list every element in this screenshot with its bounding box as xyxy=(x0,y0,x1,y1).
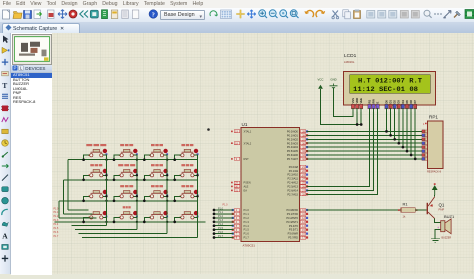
button S6 keypad row2 col2 xyxy=(119,169,138,177)
svg-text:P0.0/AD0: P0.0/AD0 xyxy=(287,130,299,134)
svg-text:P1.5: P1.5 xyxy=(218,227,224,230)
wire keypad row 1 net xyxy=(68,160,198,210)
svg-text:P3.7/RD: P3.7/RD xyxy=(288,236,298,240)
junction dots keypad row 3 column crossings xyxy=(105,200,168,202)
wire LCD D6 vertical xyxy=(410,108,412,155)
button S3 label text xyxy=(151,144,163,146)
wire keypad row 2 button stubs xyxy=(84,175,181,180)
wire LCD D7 vertical xyxy=(414,108,416,159)
svg-text:ALE: ALE xyxy=(244,185,249,189)
svg-text:P2.6/A14: P2.6/A14 xyxy=(287,189,298,193)
svg-text:VEE: VEE xyxy=(359,98,363,104)
wire U1 P0.1 to RP1 pin 3 xyxy=(307,134,422,136)
svg-text:VCC: VCC xyxy=(318,78,324,82)
button S3 keypad row1 col3 xyxy=(149,149,168,157)
svg-text:P2.7/A15: P2.7/A15 xyxy=(287,192,298,196)
svg-text:VSS: VSS xyxy=(351,98,355,104)
LCD LCD1 LM016L body xyxy=(344,72,436,106)
svg-text:U1: U1 xyxy=(242,122,248,127)
svg-text:P1.2: P1.2 xyxy=(218,215,224,218)
LCD1 display screen xyxy=(350,75,431,94)
svg-text:P1.1: P1.1 xyxy=(54,212,59,214)
svg-text:P1.2: P1.2 xyxy=(54,216,59,218)
U1 right pin number boxes xyxy=(300,130,308,240)
wire LCD D4 vertical xyxy=(402,108,404,147)
button S10 label text xyxy=(120,185,133,187)
wire U1 P0.0 to RP1 pin 2 xyxy=(307,130,422,132)
wire keypad row 4 button stubs xyxy=(84,217,181,222)
svg-text:RST: RST xyxy=(244,157,250,161)
junction dots data bus staircase xyxy=(385,130,416,160)
svg-text:D6: D6 xyxy=(409,100,413,104)
net labels P1.0-P1.7 xyxy=(218,204,228,238)
button S1 keypad row1 col1 xyxy=(88,149,107,157)
button S15 keypad row4 col3 xyxy=(149,211,168,219)
svg-text:P1.7: P1.7 xyxy=(244,236,250,240)
svg-text:P2.4/A12: P2.4/A12 xyxy=(287,181,298,185)
wire keypad row 3 button stubs xyxy=(84,196,181,201)
svg-text:P: P xyxy=(14,66,17,71)
svg-text:P1.3: P1.3 xyxy=(244,220,250,224)
svg-text:PNP: PNP xyxy=(439,207,445,211)
svg-text:R1: R1 xyxy=(403,202,409,207)
svg-text:P1.0: P1.0 xyxy=(244,208,250,212)
svg-text:P1.1: P1.1 xyxy=(244,212,250,216)
svg-text:RP1: RP1 xyxy=(429,115,438,120)
junction dots keypad column 3 xyxy=(166,174,168,197)
svg-text:P2.5/A13: P2.5/A13 xyxy=(287,185,298,189)
svg-text:LCD1: LCD1 xyxy=(344,53,357,59)
svg-text:P1.0: P1.0 xyxy=(218,207,224,210)
junction dots keypad row 2 column crossings xyxy=(105,179,168,181)
junction dots P1 bus xyxy=(213,209,216,239)
svg-text:P3.4/T0: P3.4/T0 xyxy=(289,224,299,228)
junction dots keypad row 3 stubs xyxy=(82,199,176,202)
junction dots keypad column 4 xyxy=(196,174,198,197)
wire LCD D0 vertical xyxy=(386,108,388,131)
button S16 keypad row4 col4 xyxy=(180,211,199,219)
button S4 label text xyxy=(181,144,193,146)
junction dots keypad row 4 column crossings xyxy=(105,221,168,223)
LCD1 pin name labels vertical xyxy=(351,98,417,104)
svg-text:PSEN: PSEN xyxy=(244,181,251,185)
wire keypad column 4 net xyxy=(82,155,198,237)
svg-text:D5: D5 xyxy=(405,100,409,104)
button S5 keypad row2 col1 xyxy=(88,169,107,177)
svg-text:D3: D3 xyxy=(397,100,401,104)
svg-text:P0.6/AD6: P0.6/AD6 xyxy=(287,153,299,157)
button S4 keypad row1 col4 xyxy=(180,149,199,157)
svg-text:P3.3/INT1: P3.3/INT1 xyxy=(286,220,298,224)
svg-text:?: ? xyxy=(152,11,155,18)
junction dots keypad column 1 xyxy=(105,174,107,197)
button S9 keypad row3 col1 xyxy=(88,190,107,198)
U1 right pin names xyxy=(286,130,298,240)
svg-text:P1.3: P1.3 xyxy=(218,219,224,222)
wire keypad column 3 net xyxy=(79,155,168,233)
button S12 label text xyxy=(181,185,193,187)
button S12 keypad row3 col4 xyxy=(180,190,199,198)
wire VCC to LCD VDD and VEE xyxy=(321,89,363,125)
svg-text:BUZZER: BUZZER xyxy=(442,236,452,239)
U1 left pin names xyxy=(244,130,252,240)
svg-text:BUZ1: BUZ1 xyxy=(444,214,455,219)
junction dots keypad row 1 column crossings xyxy=(105,159,168,161)
svg-text:P2.0/A8: P2.0/A8 xyxy=(289,165,299,169)
button S11 label text xyxy=(151,185,163,187)
button S7 label text xyxy=(151,164,163,166)
wire LCD D5 vertical xyxy=(406,108,408,151)
svg-text:P1.6: P1.6 xyxy=(54,232,59,234)
svg-text:VDD: VDD xyxy=(355,98,359,104)
svg-text:P0.3/AD3: P0.3/AD3 xyxy=(287,141,299,145)
button S10 keypad row3 col2 xyxy=(119,190,138,198)
svg-text:RS: RS xyxy=(367,100,371,104)
wire LCD D2 vertical xyxy=(394,108,396,139)
button S13 keypad row4 col1 xyxy=(88,211,107,219)
svg-text:P1.5: P1.5 xyxy=(244,228,250,232)
buzzer BUZ1 body xyxy=(441,219,451,234)
svg-text:RESPACK-8: RESPACK-8 xyxy=(427,171,442,174)
R1 pin end marks xyxy=(398,209,417,211)
wire GND to LCD VSS xyxy=(334,88,354,117)
wire U1 P0.6 to RP1 pin 8 xyxy=(307,154,422,156)
button S7 keypad row2 col3 xyxy=(149,169,168,177)
svg-text:P0.7/AD7: P0.7/AD7 xyxy=(287,157,299,161)
U1 unconnected pin-end marks xyxy=(231,131,233,192)
LCD1 pin connector boxes xyxy=(351,104,416,111)
svg-text:XTAL2: XTAL2 xyxy=(244,141,252,145)
junction dots keypad column 2 xyxy=(136,174,138,197)
svg-text:D4: D4 xyxy=(401,100,405,104)
svg-text:A: A xyxy=(2,231,8,240)
IC U1 AT89C51 microcontroller xyxy=(241,128,300,242)
transistor Q1 PNP symbol xyxy=(427,197,435,219)
wire U1 P3.0 to R1 xyxy=(307,209,401,211)
power VCC up-arrow at Q1 emitter xyxy=(432,183,438,195)
svg-text:P1.6: P1.6 xyxy=(244,232,250,236)
button S8 keypad row2 col4 xyxy=(180,169,199,177)
svg-text:11:12 SEC-01 08: 11:12 SEC-01 08 xyxy=(353,86,418,93)
svg-text:P2.1/A9: P2.1/A9 xyxy=(289,169,299,173)
wire keypad column 1 net xyxy=(72,155,107,226)
svg-text:D1: D1 xyxy=(389,100,393,104)
button S8 label text xyxy=(181,164,193,166)
wire LCD D3 vertical xyxy=(398,108,400,143)
wire U1 P0.7 to RP1 pin 9 xyxy=(307,158,422,160)
svg-text:AT89C51: AT89C51 xyxy=(243,243,256,247)
button S11 keypad row3 col3 xyxy=(149,190,168,198)
svg-text:P0.4/AD4: P0.4/AD4 xyxy=(287,145,299,149)
wire U1 P0.2 to RP1 pin 4 xyxy=(307,138,422,140)
svg-text:P1.1: P1.1 xyxy=(218,211,224,214)
svg-text:P2.3/A11: P2.3/A11 xyxy=(288,177,299,181)
wire LCD RW to U1 P2.6 xyxy=(307,108,374,190)
wire U1 P0.3 to RP1 pin 5 xyxy=(307,142,422,144)
wire keypad row 1 button stubs xyxy=(84,155,181,160)
resistor R1 body xyxy=(401,208,415,212)
svg-text:P0.1/AD1: P0.1/AD1 xyxy=(287,133,299,137)
svg-text:P1.3: P1.3 xyxy=(54,220,59,222)
svg-text:P1.0: P1.0 xyxy=(54,208,59,210)
wire keypad row 4 net xyxy=(55,221,206,223)
button S5 label text xyxy=(90,164,102,166)
svg-text:P1.4: P1.4 xyxy=(218,223,224,226)
power VCC symbol xyxy=(318,78,324,89)
svg-text:P0.5/AD5: P0.5/AD5 xyxy=(287,149,299,153)
svg-text:+: + xyxy=(437,226,439,230)
svg-text:P3.0/RXD: P3.0/RXD xyxy=(286,208,298,212)
wire Q1 collector to BUZ1 + xyxy=(435,219,441,223)
button S2 keypad row1 col2 xyxy=(119,149,138,157)
svg-text:P1.5: P1.5 xyxy=(54,228,59,230)
svg-text:P1.7: P1.7 xyxy=(54,236,59,238)
ground symbol at buzzer xyxy=(431,239,440,243)
RP1 pin 1 mark xyxy=(423,122,427,126)
svg-text:P3.1/TXD: P3.1/TXD xyxy=(287,212,298,216)
wire Q1 emitter to VCC arrow xyxy=(434,195,436,197)
junction dots keypad row 1 stubs xyxy=(82,158,176,161)
svg-text:EA: EA xyxy=(244,189,248,193)
wire bus stubs to U1 P1 pins xyxy=(214,210,233,238)
svg-text:P3.2/INT0: P3.2/INT0 xyxy=(286,216,298,220)
wire R1 to Q1 base xyxy=(415,209,426,211)
junction dots keypad row 2 stubs xyxy=(82,178,176,181)
svg-text:P1.4: P1.4 xyxy=(54,224,59,226)
svg-text:P1.6: P1.6 xyxy=(218,231,224,234)
wire LCD RS to U1 P2.5 xyxy=(307,108,370,186)
svg-text:D2: D2 xyxy=(393,100,397,104)
button S6 label text xyxy=(118,164,135,166)
junction dots keypad row 4 stubs xyxy=(82,221,176,224)
button S1 label text xyxy=(86,144,106,146)
svg-text:P0.2/AD2: P0.2/AD2 xyxy=(287,137,299,141)
svg-text:D7: D7 xyxy=(413,100,417,104)
button S2 label text xyxy=(120,144,133,146)
U1 left pin number boxes xyxy=(232,130,240,240)
svg-text:LM016L: LM016L xyxy=(344,60,355,64)
svg-text:GND: GND xyxy=(330,78,336,82)
svg-text:P2.2/A10: P2.2/A10 xyxy=(287,173,298,177)
svg-text:T: T xyxy=(2,81,7,90)
svg-text:P1.0: P1.0 xyxy=(223,204,229,207)
resistor pack RP1 body xyxy=(428,121,444,169)
svg-text:D0: D0 xyxy=(384,100,388,104)
svg-text:RW: RW xyxy=(371,99,375,104)
button S14 label text xyxy=(123,206,131,208)
svg-text:P3.5/T1: P3.5/T1 xyxy=(289,228,299,232)
RP1 pin connector boxes xyxy=(422,130,427,161)
svg-text:XTAL1: XTAL1 xyxy=(244,130,252,134)
svg-text:E: E xyxy=(376,102,380,104)
wire BUZ1 - to ground xyxy=(435,230,441,239)
svg-text:P1.4: P1.4 xyxy=(244,224,250,228)
wire U1 P0.5 to RP1 pin 7 xyxy=(307,150,422,152)
wire LCD D1 vertical xyxy=(390,108,392,135)
wire U1 P0.4 to RP1 pin 6 xyxy=(307,146,422,148)
svg-text:P1.7: P1.7 xyxy=(218,235,224,238)
svg-text:P1.2: P1.2 xyxy=(244,216,250,220)
wire keypad row 3 net xyxy=(59,201,198,218)
wire LCD E to U1 P2.7 xyxy=(307,108,378,194)
node origin marker xyxy=(207,128,210,131)
net labels near keypad elbows xyxy=(54,208,59,238)
button S14 keypad row4 col2 xyxy=(119,211,138,219)
wire keypad row 2 net xyxy=(64,180,198,214)
wire keypad column 2 net xyxy=(75,155,137,230)
svg-text:H.T 012:007 R.T: H.T 012:007 R.T xyxy=(358,78,422,85)
ground GND symbol near LCD xyxy=(330,78,338,88)
junction dots VDD VEE taps xyxy=(356,123,363,126)
svg-text:P3.6/WR: P3.6/WR xyxy=(288,232,299,236)
